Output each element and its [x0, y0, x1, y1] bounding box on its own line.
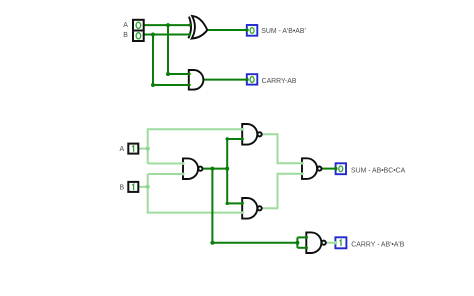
svg-text:CARRY-AB: CARRY-AB: [262, 78, 297, 85]
svg-text:B: B: [123, 32, 128, 39]
svg-text:CARRY - AB'•A'B: CARRY - AB'•A'B: [351, 241, 404, 248]
svg-text:A: A: [123, 22, 128, 29]
svg-text:SUM - AB•BC•CA: SUM - AB•BC•CA: [351, 168, 406, 175]
svg-text:SUM - A'B•AB': SUM - A'B•AB': [261, 28, 305, 35]
svg-text:B: B: [120, 185, 125, 192]
svg-text:A: A: [120, 146, 125, 153]
